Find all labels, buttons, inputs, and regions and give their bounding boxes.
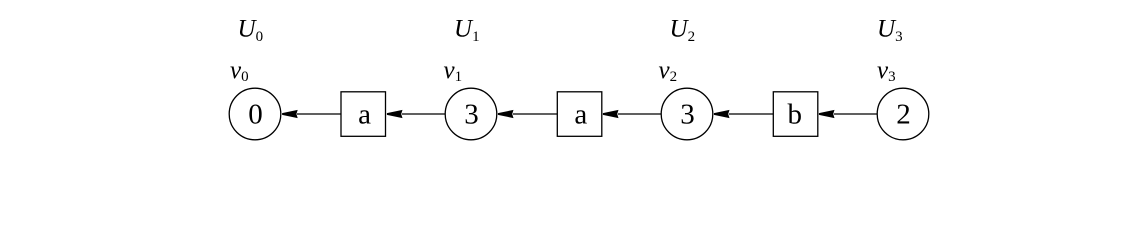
- svg-text:v2: v2: [659, 57, 678, 85]
- svg-text:3: 3: [680, 99, 695, 131]
- wire b to v2: [729, 113, 773, 115]
- variable circle v3 value 2: [877, 88, 929, 140]
- svg-text:a: a: [574, 99, 587, 131]
- svg-text:U0: U0: [238, 16, 264, 46]
- wire a1 to v0: [297, 113, 341, 115]
- variable circle v1 value 3: [445, 88, 497, 140]
- arrowhead into b: [819, 110, 835, 118]
- arrowhead into v1: [498, 110, 514, 118]
- svg-text:v1: v1: [444, 57, 463, 85]
- factor square a1: [341, 92, 386, 137]
- wire v2 to a2: [618, 113, 661, 115]
- svg-text:v3: v3: [877, 57, 896, 85]
- arrowhead into a2: [603, 110, 619, 118]
- svg-text:U1: U1: [454, 16, 480, 46]
- arrowhead into v0: [282, 110, 298, 118]
- variable circle v2 value 3: [661, 88, 713, 140]
- variable circle v0 value 0: [229, 88, 281, 140]
- svg-text:a: a: [358, 99, 371, 131]
- svg-text:0: 0: [248, 99, 263, 131]
- svg-text:v0: v0: [230, 57, 249, 85]
- wire a2 to v1: [513, 113, 557, 115]
- svg-text:U2: U2: [670, 16, 696, 46]
- svg-text:3: 3: [464, 99, 479, 131]
- svg-text:2: 2: [896, 99, 911, 131]
- arrowhead into a1: [387, 110, 403, 118]
- arrowhead into v2: [714, 110, 730, 118]
- wire v1 to a1: [402, 113, 445, 115]
- svg-text:U3: U3: [877, 16, 903, 46]
- wire v3 to b: [834, 113, 877, 115]
- factor square b: [773, 92, 818, 137]
- factor square a2: [557, 92, 602, 137]
- svg-text:b: b: [788, 99, 803, 131]
